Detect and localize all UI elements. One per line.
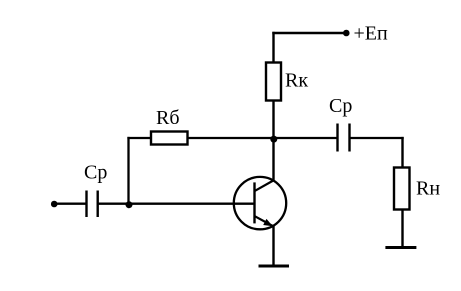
input terminal dot bbox=[51, 201, 58, 208]
wire Rк to collector node bbox=[272, 101, 274, 139]
capacitor C1 (Ср) right plate bbox=[96, 191, 98, 218]
capacitor C1 (Ср) left plate bbox=[85, 191, 87, 218]
ground bar (load) bbox=[385, 246, 416, 249]
resistor Rк bbox=[266, 63, 281, 101]
wire vertical up from junction bbox=[127, 137, 129, 204]
svg-text:Ср: Ср bbox=[329, 95, 352, 117]
svg-text:+Еп: +Еп bbox=[354, 23, 388, 45]
resistor Rб bbox=[151, 132, 188, 145]
wire junction to Rб bbox=[127, 137, 151, 139]
node junction dot at base branch bbox=[126, 201, 133, 208]
wire Rн to ground bbox=[401, 210, 403, 248]
node collector junction dot bbox=[270, 136, 277, 143]
capacitor C2 (Ср) left plate bbox=[336, 124, 338, 152]
wire +Еп rail down to Rк bbox=[272, 32, 274, 63]
wire input to C1 bbox=[54, 203, 87, 205]
svg-text:Rк: Rк bbox=[285, 70, 308, 92]
wire top rail to +Еп bbox=[272, 32, 346, 34]
transistor collector diagonal bbox=[255, 180, 274, 191]
transistor VT1 body circle bbox=[234, 177, 286, 229]
wire emitter to ground bbox=[272, 226, 274, 266]
capacitor C2 (Ср) right plate bbox=[348, 124, 350, 152]
svg-text:Ср: Ср bbox=[84, 162, 107, 184]
wire collector node down to transistor bbox=[272, 138, 274, 181]
transistor emitter arrow bbox=[263, 219, 273, 226]
node +Еп terminal dot bbox=[343, 30, 350, 37]
wire C1 to base of transistor bbox=[98, 203, 254, 205]
transistor base bar bbox=[253, 182, 255, 223]
wire C2 to output corner bbox=[350, 137, 404, 139]
wire down to Rн bbox=[401, 137, 403, 168]
svg-text:Rб: Rб bbox=[156, 107, 180, 129]
transistor emitter diagonal bbox=[255, 216, 273, 226]
wire collector node to C2 bbox=[274, 137, 338, 139]
svg-text:Rн: Rн bbox=[416, 178, 440, 200]
resistor Rн bbox=[394, 168, 410, 210]
wire Rб to collector node bbox=[188, 137, 274, 139]
ground bar (emitter) bbox=[259, 265, 290, 268]
